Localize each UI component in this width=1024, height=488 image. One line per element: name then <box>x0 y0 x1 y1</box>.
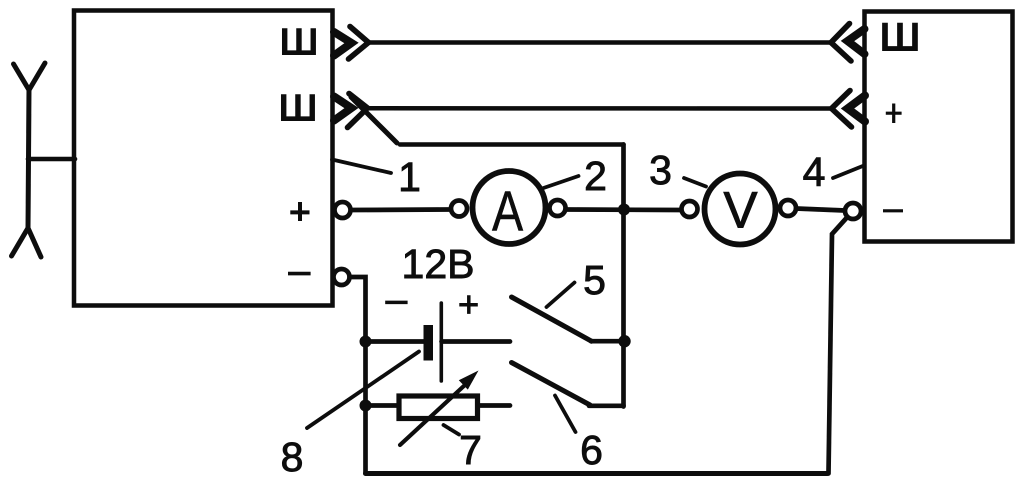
switch 6 <box>512 363 624 406</box>
terminal circle voltmeter left <box>682 201 698 217</box>
label - terminal left box <box>288 272 311 276</box>
connector socket X1.2 chevron <box>348 94 368 128</box>
antenna <box>12 63 46 257</box>
terminal circle ammeter right <box>550 200 566 216</box>
vertical bus wire <box>621 145 626 407</box>
svg-text:Ш: Ш <box>879 14 920 60</box>
svg-text:2: 2 <box>584 153 607 199</box>
terminal circle minus right box <box>845 203 861 219</box>
right box unit 4 <box>865 12 1013 242</box>
terminal circle plus left box <box>335 202 351 218</box>
right return wire up to minus terminal <box>829 219 847 474</box>
connector socket X2.2 chevron <box>832 91 852 128</box>
junction dot battery branch <box>360 336 372 348</box>
svg-text:Ш: Ш <box>279 21 318 64</box>
switch 5 <box>512 297 627 341</box>
terminal circle voltmeter right <box>780 200 796 216</box>
label - battery <box>385 301 407 305</box>
wire plus terminal to ammeter <box>352 207 451 212</box>
wire top pair conductor <box>369 40 832 45</box>
wire ammeter to node <box>566 207 682 212</box>
wire antenna feed line <box>28 157 75 162</box>
svg-text:7: 7 <box>459 427 482 473</box>
node junction dot at vertical bus and meter wire <box>618 204 630 216</box>
connector socket X1.1 chevron <box>349 27 369 60</box>
bottom return wire <box>366 471 828 476</box>
leader line label 8 <box>307 352 419 429</box>
leader line label 6 <box>555 396 576 433</box>
rheostat adjustment arrow <box>400 371 479 446</box>
label + terminal left box <box>290 202 309 221</box>
label + right box <box>886 104 902 124</box>
svg-text:Ш: Ш <box>278 87 317 130</box>
leader line label 7 <box>444 425 460 435</box>
label - right box <box>883 209 903 212</box>
svg-text:V: V <box>723 182 757 239</box>
svg-text:8: 8 <box>281 434 304 480</box>
voltmeter V <box>705 174 776 245</box>
wire rheostat to switch 6 contact <box>478 403 511 408</box>
leader line label 5 <box>547 283 575 308</box>
wire third conductor to node <box>400 142 624 147</box>
battery 8 positive plate <box>439 303 443 381</box>
leader line label 4 <box>833 166 864 179</box>
svg-text:3: 3 <box>649 147 672 193</box>
wire minus terminal down to battery branch <box>350 277 366 474</box>
svg-text:1: 1 <box>398 154 421 200</box>
leader line label 2 <box>544 176 579 188</box>
label + battery <box>459 295 478 314</box>
connector pin X2.2 arrow <box>848 96 866 122</box>
rheostat 7 body <box>399 396 478 419</box>
terminal circle minus left box <box>334 269 350 285</box>
wire second pair conductor <box>368 106 833 111</box>
junction dot rheostat branch <box>360 400 372 412</box>
svg-text:6: 6 <box>580 427 603 473</box>
connector pin X1.2 arrow <box>334 97 352 121</box>
ammeter A <box>473 171 546 244</box>
junction dot switch 5 at bus <box>618 335 630 347</box>
left box unit 1 <box>74 11 333 306</box>
connector pin X1.1 arrow <box>334 32 352 56</box>
battery 8 negative plate <box>424 325 434 361</box>
svg-text:5: 5 <box>583 257 606 303</box>
connector pin X2.1 arrow <box>848 29 865 54</box>
wire to rheostat <box>366 403 400 408</box>
leader line label 3 <box>684 178 706 187</box>
wire to battery negative plate <box>366 339 425 344</box>
terminal circle ammeter left <box>451 201 467 217</box>
wire voltmeter to right box terminal <box>796 209 845 211</box>
wire battery to switch 5 contact <box>442 339 511 344</box>
svg-text:12В: 12В <box>402 241 475 287</box>
svg-text:A: A <box>492 180 523 243</box>
leader line label 1 <box>332 160 391 174</box>
connector socket X2.1 chevron <box>831 24 851 62</box>
svg-text:4: 4 <box>803 149 826 195</box>
wire pair diagonal drop <box>351 97 397 143</box>
